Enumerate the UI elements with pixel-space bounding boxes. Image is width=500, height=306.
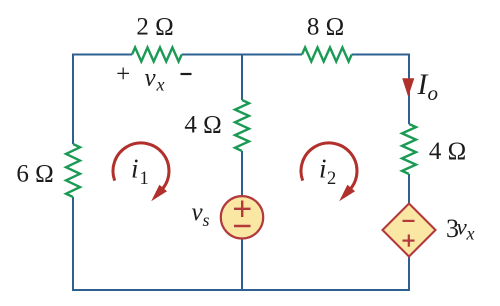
current arrow Io	[402, 78, 414, 97]
svg-text:6 Ω: 6 Ω	[16, 161, 53, 188]
resistor 4ohm middle	[235, 100, 249, 151]
svg-text:i: i	[131, 154, 139, 184]
svg-text:1: 1	[140, 169, 149, 189]
svg-text:8 Ω: 8 Ω	[307, 14, 344, 41]
arrowhead i1	[151, 185, 167, 201]
svg-text:v: v	[145, 65, 157, 92]
svg-text:o: o	[428, 81, 439, 105]
mesh current arc i1	[113, 143, 169, 189]
svg-text:x: x	[466, 224, 475, 244]
label minus of vx	[181, 73, 192, 75]
resistor 6ohm	[66, 144, 80, 197]
svg-text:2: 2	[327, 169, 336, 189]
wire middle vertical lower	[241, 238, 243, 290]
svg-text:4 Ω: 4 Ω	[184, 112, 221, 139]
wire top-right segment	[352, 55, 409, 125]
wire top-left segment	[73, 55, 132, 145]
diamond plus sign	[403, 235, 415, 247]
svg-text:+: +	[116, 61, 130, 88]
dependent source 3vx (diamond)	[383, 204, 436, 257]
svg-text:i: i	[319, 154, 327, 184]
mesh current arc i2	[301, 143, 357, 189]
wire right between 4ohm and diamond	[408, 174, 410, 204]
svg-text:s: s	[203, 210, 210, 230]
wire left-bottom segment	[72, 197, 74, 290]
svg-text:4 Ω: 4 Ω	[429, 138, 466, 165]
wire middle vertical between resistor and source	[241, 151, 243, 196]
vs plus sign	[234, 201, 251, 218]
svg-text:x: x	[156, 75, 165, 95]
svg-text:2 Ω: 2 Ω	[136, 14, 173, 41]
resistor 2ohm	[132, 48, 182, 62]
vs minus sign	[234, 225, 251, 227]
wire right lower	[408, 256, 410, 290]
resistor 4ohm right	[402, 124, 416, 174]
arrowhead i2	[339, 185, 355, 201]
wire bottom	[72, 289, 410, 291]
wire middle vertical upper	[241, 54, 243, 101]
wire top-middle segment	[182, 54, 302, 56]
resistor 8ohm	[302, 48, 352, 62]
diamond minus sign	[403, 220, 415, 222]
voltage source vs (circle)	[221, 196, 263, 238]
